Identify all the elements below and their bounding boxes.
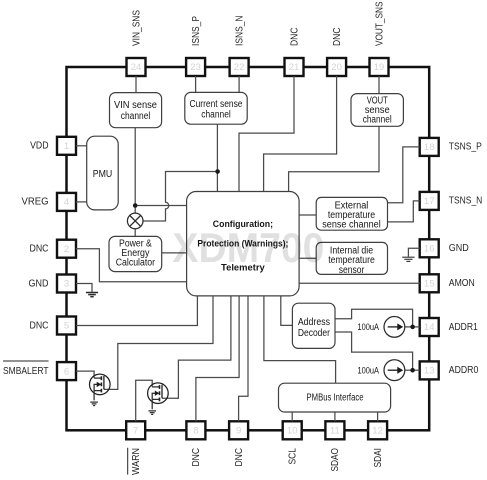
block external temperature sense channel <box>316 197 387 230</box>
block power and energy calculator <box>109 236 162 271</box>
svg-text:VREG: VREG <box>22 197 49 208</box>
pin 13 ADDR0 (right) <box>420 361 479 379</box>
svg-text:100uA: 100uA <box>358 322 380 333</box>
wire external temperature channel to pin18 TSNS_P <box>388 147 420 203</box>
svg-text:channel: channel <box>201 110 231 121</box>
svg-text:SMBALERT: SMBALERT <box>3 366 49 377</box>
wire VIN branch to configuration block <box>135 205 186 207</box>
pin 23 ISNS_P (top) <box>186 16 205 76</box>
wire PMBus interface to pin12 SDAI <box>377 412 379 421</box>
svg-text:18: 18 <box>424 142 435 153</box>
wire configuration block to pin15 AMON <box>299 282 420 284</box>
wire current sense output to configuration block <box>216 124 218 191</box>
wire current source U3 to pin13 ADDR0 <box>405 369 420 371</box>
svg-text:GND: GND <box>29 278 49 289</box>
svg-text:ISNS_P: ISNS_P <box>191 16 202 46</box>
pin 5 DNC (left) <box>30 317 77 335</box>
svg-text:ADDR0: ADDR0 <box>449 365 479 376</box>
svg-text:PMU: PMU <box>93 169 113 180</box>
multiplier (power calculation) <box>127 213 143 229</box>
svg-text:VOUT_SNS: VOUT_SNS <box>374 1 385 46</box>
svg-text:VDD: VDD <box>30 141 48 152</box>
svg-text:DNC: DNC <box>191 448 202 467</box>
wire pin20 DNC to configuration block <box>264 76 337 192</box>
pin 19 VOUT_SNS (top) <box>370 1 389 76</box>
wire configuration block to address decoder <box>281 296 293 326</box>
wire current sense branch to multiplier (hop over VIN line) <box>143 172 218 222</box>
block current sense channel <box>185 92 247 124</box>
U3 100uA current source (ADDR0) <box>358 360 405 381</box>
junction ADDR1 node <box>410 325 415 330</box>
wire pin16 GND to ground symbol <box>408 248 419 256</box>
svg-text:1: 1 <box>64 141 69 152</box>
pin 1 VDD (left) <box>30 137 76 155</box>
pin 9 DNC (bottom) <box>229 421 248 466</box>
wire multiplier to power-energy calculator <box>134 229 136 237</box>
svg-text:AMON: AMON <box>449 278 475 289</box>
svg-text:24: 24 <box>131 62 142 73</box>
svg-text:TSNS_N: TSNS_N <box>449 196 483 207</box>
block address decoder <box>292 303 335 348</box>
wire address decoder to ADDR1 node <box>335 309 413 327</box>
IC package outline <box>67 67 430 430</box>
wire pin21 DNC to configuration block <box>239 76 294 192</box>
svg-text:Current sense: Current sense <box>190 99 243 110</box>
wire pin4 VREG to PMU <box>76 201 87 203</box>
U2 100uA current source (ADDR1) <box>358 317 405 338</box>
wire PMBus interface to pin10 SCL <box>291 412 293 421</box>
wire pin5 DNC to configuration block <box>76 296 197 326</box>
wire external temperature channel to pin17 TSNS_N <box>388 201 420 222</box>
wire pin24 to VIN sense channel <box>135 76 137 93</box>
svg-text:23: 23 <box>190 62 201 73</box>
svg-text:2: 2 <box>64 244 69 255</box>
svg-text:ISNS_N: ISNS_N <box>234 16 245 47</box>
overline of WARN label <box>127 448 129 475</box>
svg-text:15: 15 <box>424 279 435 290</box>
svg-text:Address: Address <box>298 317 330 328</box>
wire pin1 VDD to PMU <box>76 145 87 147</box>
wire VOUT sense output to configuration block <box>289 126 379 191</box>
wire configuration block to external temperature channel <box>299 214 316 216</box>
svg-text:20: 20 <box>331 62 342 73</box>
wire Q1 gate to configuration block <box>104 296 213 390</box>
svg-text:SDAI: SDAI <box>373 448 384 468</box>
svg-text:sense channel: sense channel <box>322 220 381 231</box>
block configuration protection telemetry <box>187 192 300 296</box>
svg-text:10: 10 <box>287 426 298 437</box>
svg-text:11: 11 <box>330 426 340 437</box>
wire pin6 SMBALERT to Q1 drain <box>76 371 94 378</box>
svg-text:GND: GND <box>449 243 469 254</box>
svg-text:DNC: DNC <box>332 28 343 47</box>
svg-text:21: 21 <box>289 62 300 73</box>
svg-text:DNC: DNC <box>234 448 245 467</box>
wire pin9 DNC to configuration block <box>239 296 248 421</box>
overline of SMBALERT label <box>3 360 49 362</box>
wire current source U2 to pin14 ADDR1 <box>405 326 420 328</box>
block VIN sense channel <box>110 93 162 128</box>
svg-text:sensor: sensor <box>339 265 365 276</box>
block VOUT sense channel <box>351 94 403 127</box>
svg-text:DNC: DNC <box>289 28 300 47</box>
svg-text:PMBus Interface: PMBus Interface <box>307 393 364 404</box>
transistor Q1 (SMBALERT open-drain) <box>90 374 111 406</box>
pin 24 VIN_SNS (top) <box>127 10 146 76</box>
block internal die temperature sensor <box>316 242 387 275</box>
pin 12 SDAI (bottom) <box>368 421 387 467</box>
svg-text:WARN: WARN <box>131 448 142 475</box>
svg-text:SDAO: SDAO <box>330 448 341 472</box>
wire address decoder to ADDR0 node <box>335 332 413 370</box>
svg-text:17: 17 <box>424 196 435 207</box>
wire pin22 to current sense channel <box>238 76 240 92</box>
block PMU <box>87 136 119 210</box>
wire configuration block to PMBus interface <box>264 296 336 384</box>
svg-text:22: 22 <box>234 62 245 73</box>
ground symbol at pin 3 GND <box>86 293 98 297</box>
pin 6 SMBALERT (left) <box>3 361 76 380</box>
svg-text:VIN sense: VIN sense <box>114 100 157 111</box>
svg-text:VIN_SNS: VIN_SNS <box>131 10 142 46</box>
junction current sense node <box>215 169 220 174</box>
svg-text:channel: channel <box>363 115 392 126</box>
svg-text:12: 12 <box>372 426 383 437</box>
pin 10 SCL (bottom) <box>283 421 302 464</box>
svg-text:100uA: 100uA <box>358 366 380 377</box>
pin 3 GND (left) <box>29 275 77 293</box>
wire pin8 DNC to configuration block <box>196 296 239 421</box>
pin 14 ADDR1 (right) <box>420 318 478 336</box>
svg-text:DNC: DNC <box>30 320 49 331</box>
pin 7 WARN (bottom) <box>126 421 145 475</box>
svg-text:9: 9 <box>236 426 241 437</box>
wire configuration block to internal die temperature sensor <box>299 257 316 259</box>
svg-text:19: 19 <box>374 62 385 73</box>
svg-text:8: 8 <box>193 426 198 437</box>
junction ADDR0 node <box>410 368 415 373</box>
svg-text:16: 16 <box>424 244 435 255</box>
svg-text:Calculator: Calculator <box>116 258 156 269</box>
svg-text:SCL: SCL <box>288 448 299 465</box>
svg-text:4: 4 <box>64 197 69 208</box>
pin 18 TSNS_P (right) <box>420 138 482 156</box>
svg-text:13: 13 <box>424 366 435 377</box>
svg-text:3: 3 <box>64 279 69 290</box>
svg-text:6: 6 <box>64 366 69 377</box>
ground symbol at pin 16 GND <box>402 257 414 261</box>
wire pin19 to VOUT sense channel <box>378 76 380 94</box>
svg-text:14: 14 <box>424 322 435 333</box>
wire pin7 WARN to Q2 drain <box>136 380 153 421</box>
wire pin2 DNC to configuration block <box>76 249 187 282</box>
pin 22 ISNS_N (top) <box>230 16 249 77</box>
block PMBus interface <box>279 383 391 412</box>
svg-text:Decoder: Decoder <box>298 328 331 339</box>
wire PMBus interface to pin11 SDAO <box>334 412 336 421</box>
wire Q2 gate to configuration block <box>162 296 231 398</box>
svg-text:XDM700: XDM700 <box>172 224 324 271</box>
pin 17 TSNS_N (right) <box>420 192 483 210</box>
svg-text:5: 5 <box>64 321 69 332</box>
junction VIN sense node <box>133 203 138 208</box>
svg-text:TSNS_P: TSNS_P <box>449 142 482 153</box>
wire power-energy calculator to configuration block <box>161 252 186 254</box>
pin 21 DNC (top) <box>285 28 304 77</box>
svg-text:DNC: DNC <box>30 244 49 255</box>
pin 11 SDAO (bottom) <box>325 421 344 471</box>
pin 15 AMON (right) <box>420 274 475 292</box>
pin 2 DNC (left) <box>30 240 77 258</box>
pin 20 DNC (top) <box>327 28 346 77</box>
wire pin3 GND to ground symbol <box>76 284 92 292</box>
svg-text:ADDR1: ADDR1 <box>449 322 478 333</box>
wire pin23 to current sense channel <box>195 76 197 92</box>
pin 8 DNC (bottom) <box>186 421 205 466</box>
transistor Q2 (WARN open-drain) <box>148 383 169 414</box>
wire VIN sense output down to multiplier <box>134 128 136 214</box>
pin 4 VREG (left) <box>22 193 77 211</box>
svg-text:7: 7 <box>133 426 138 437</box>
pin 16 GND (right) <box>420 239 469 257</box>
svg-text:channel: channel <box>121 111 151 122</box>
